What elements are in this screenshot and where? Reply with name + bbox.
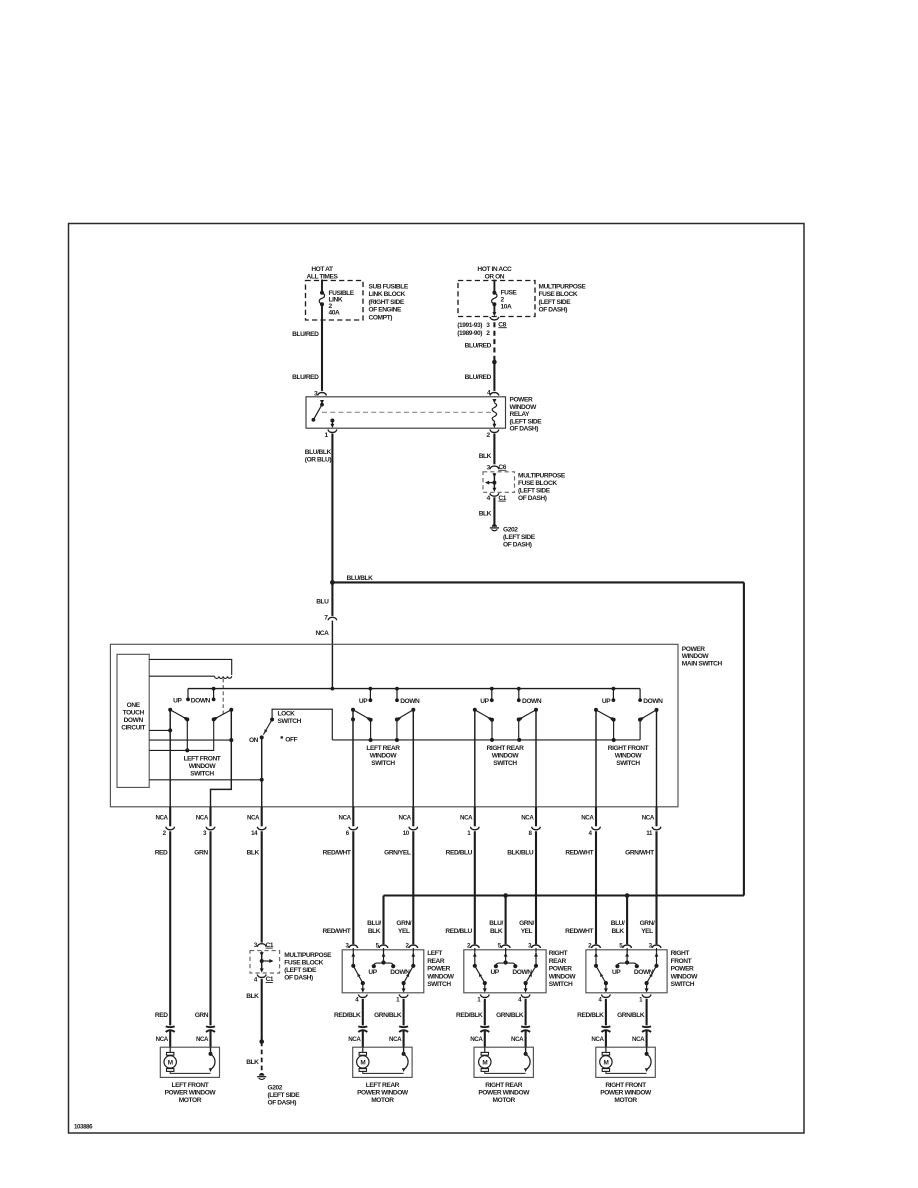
svg-text:POWER: POWER <box>682 646 705 653</box>
svg-text:GRN: GRN <box>195 1012 209 1019</box>
svg-text:BLU/: BLU/ <box>611 920 625 927</box>
right front power window switch common contact <box>626 949 628 963</box>
svg-text:(1989-90): (1989-90) <box>457 330 482 337</box>
left rear power window switch box <box>342 950 424 993</box>
svg-text:LINK BLOCK: LINK BLOCK <box>369 291 406 298</box>
svg-text:CIRCUIT: CIRCUIT <box>121 725 145 732</box>
svg-text:BLU/RED: BLU/RED <box>292 374 319 381</box>
svg-text:RIGHT REAR: RIGHT REAR <box>487 745 524 752</box>
svg-text:NCA: NCA <box>642 814 655 821</box>
svg-text:(OR BLU): (OR BLU) <box>305 456 332 463</box>
svg-text:NCA: NCA <box>389 1036 402 1043</box>
svg-text:HOT IN ACC: HOT IN ACC <box>477 266 512 273</box>
svg-text:TOUCH: TOUCH <box>123 710 145 717</box>
svg-text:BLK/BLU: BLK/BLU <box>507 849 534 856</box>
svg-text:NCA: NCA <box>470 1036 483 1043</box>
svg-text:UP: UP <box>490 969 499 976</box>
svg-text:GRN/BLK: GRN/BLK <box>496 1012 524 1019</box>
svg-text:GRN/: GRN/ <box>519 920 534 927</box>
left rear switch DOWN stub <box>396 689 398 701</box>
svg-text:NCA: NCA <box>348 1036 361 1043</box>
svg-text:DOWN: DOWN <box>643 698 663 705</box>
svg-text:OFF: OFF <box>285 736 297 743</box>
wire BLU/RED to relay pin 4 <box>493 362 495 391</box>
right rear switch left arm <box>473 708 477 712</box>
left front power window motor brush contact <box>210 1047 212 1053</box>
wire BLK to junction <box>261 979 263 1042</box>
svg-text:UP: UP <box>480 698 489 705</box>
wire BLU/BLK drop right front <box>626 896 628 945</box>
svg-text:RED/BLU: RED/BLU <box>446 849 473 856</box>
svg-text:BLK: BLK <box>247 849 260 856</box>
left rear power window switch bottom pins <box>362 983 364 990</box>
right front power window switch bottom pins <box>605 983 607 990</box>
svg-text:HOT AT: HOT AT <box>311 266 333 273</box>
wire BLU/RED fusible link to relay pin 3 <box>321 320 323 391</box>
lock switch <box>270 718 274 722</box>
relay pin 1 connector <box>328 430 337 433</box>
right rear power window switch right arm <box>535 952 537 965</box>
svg-text:SWITCH: SWITCH <box>549 981 573 988</box>
left front power window motor inline connectors <box>166 1025 175 1028</box>
svg-text:40A: 40A <box>329 309 340 316</box>
svg-text:SWITCH: SWITCH <box>616 760 640 767</box>
svg-text:WINDOW: WINDOW <box>492 753 520 760</box>
wire BLU/BLK right vertical trunk <box>743 582 745 895</box>
svg-text:REAR: REAR <box>549 958 567 965</box>
relay pin 4 connector <box>490 393 499 396</box>
svg-text:SWITCH: SWITCH <box>278 718 302 725</box>
svg-text:(LEFT SIDE: (LEFT SIDE <box>518 487 551 494</box>
main switch pin 11 (GRN/WHT) <box>655 807 657 827</box>
svg-text:WINDOW: WINDOW <box>189 763 217 770</box>
svg-text:NCA: NCA <box>591 1036 604 1043</box>
svg-text:NCA: NCA <box>521 814 534 821</box>
wire into fuse <box>493 280 495 293</box>
svg-text:ONE: ONE <box>127 702 141 709</box>
svg-text:YEL: YEL <box>521 928 533 935</box>
wire BLU/BLK drop right rear <box>505 896 507 945</box>
left rear power window motor brush contact <box>403 1047 405 1053</box>
svg-text:DOWN: DOWN <box>634 969 654 976</box>
svg-text:BLU/: BLU/ <box>489 920 503 927</box>
junction right front BLU/BLK <box>625 893 630 898</box>
svg-text:POWER: POWER <box>671 966 694 973</box>
svg-text:POWER WINDOW: POWER WINDOW <box>357 1089 409 1096</box>
left rear power window switch right arm <box>412 952 414 965</box>
power window relay box <box>306 397 506 428</box>
svg-text:NCA: NCA <box>196 814 209 821</box>
main switch pin 1 (RED/BLU) <box>474 807 476 827</box>
relay pin 3 connector <box>318 393 327 396</box>
wire one-touch to coil left <box>149 675 214 677</box>
svg-text:LEFT FRONT: LEFT FRONT <box>184 755 221 762</box>
multipurpose fuse block (dashed) <box>458 281 535 317</box>
svg-text:NCA: NCA <box>315 630 329 637</box>
svg-text:(LEFT SIDE: (LEFT SIDE <box>268 1092 301 1099</box>
left front switch left arm <box>168 708 172 712</box>
svg-text:14: 14 <box>251 830 258 837</box>
svg-text:NCA: NCA <box>155 814 168 821</box>
svg-text:FUSE BLOCK: FUSE BLOCK <box>518 480 557 487</box>
svg-text:RED: RED <box>155 849 168 856</box>
svg-text:OF DASH): OF DASH) <box>268 1099 297 1106</box>
svg-text:NCA: NCA <box>247 814 260 821</box>
svg-text:M: M <box>360 1059 365 1066</box>
left rear power window motor motor symbol <box>362 1047 364 1052</box>
left front power window motor box <box>160 1047 219 1077</box>
svg-text:RELAY: RELAY <box>510 411 531 418</box>
svg-text:BLU/BLK: BLU/BLK <box>305 449 332 456</box>
svg-text:BLU/BLK: BLU/BLK <box>347 575 374 582</box>
right rear power window switch bottom pins <box>484 983 486 990</box>
left rear switch left arm <box>351 708 355 712</box>
fusible link 2 40A <box>320 291 324 295</box>
wire BLU/BLK horizontal trunk <box>332 581 744 583</box>
svg-text:(RIGHT SIDE: (RIGHT SIDE <box>369 299 405 306</box>
svg-text:OR ON: OR ON <box>485 274 505 281</box>
svg-text:GRN/YEL: GRN/YEL <box>384 849 411 856</box>
svg-text:DOWN: DOWN <box>522 698 542 705</box>
wire into fusible link <box>321 280 323 293</box>
right rear power window switch common contact <box>505 949 507 963</box>
left rear power window motor inline connectors <box>358 1025 367 1028</box>
svg-text:LOCK: LOCK <box>278 711 296 718</box>
svg-text:WINDOW: WINDOW <box>549 973 577 980</box>
one touch coil <box>215 676 232 678</box>
left front switch DOWN contact <box>213 689 215 700</box>
connector C1 <box>490 493 499 496</box>
svg-text:WINDOW: WINDOW <box>510 404 538 411</box>
svg-text:(LEFT SIDE: (LEFT SIDE <box>510 418 543 425</box>
svg-text:RIGHT FRONT: RIGHT FRONT <box>608 745 649 752</box>
connector C6 <box>490 466 499 469</box>
wire BLU/BLK distribution bus <box>384 894 744 896</box>
svg-text:POWER: POWER <box>427 966 450 973</box>
svg-text:RED/WHT: RED/WHT <box>323 849 351 856</box>
svg-text:UP: UP <box>368 969 377 976</box>
main switch pin 2 (RED) <box>169 807 171 827</box>
svg-text:POWER WINDOW: POWER WINDOW <box>165 1089 217 1096</box>
right rear switch DOWN stub <box>518 689 520 701</box>
svg-text:BLU/RED: BLU/RED <box>465 343 492 350</box>
right front power window motor brush contact <box>646 1047 648 1053</box>
svg-text:(LEFT SIDE: (LEFT SIDE <box>503 534 536 541</box>
svg-text:M: M <box>482 1059 487 1066</box>
connector C1 upper <box>257 944 266 947</box>
svg-text:10A: 10A <box>501 304 512 311</box>
left rear power window motor box <box>353 1047 412 1077</box>
wire BLU/BLK drop left rear <box>382 896 384 945</box>
ground G202 upper <box>492 524 497 527</box>
left front power window motor motor symbol <box>169 1047 171 1052</box>
main switch pin 7 connector <box>328 617 337 620</box>
right rear switch right arm <box>534 708 538 712</box>
svg-text:SWITCH: SWITCH <box>190 770 214 777</box>
wire BLK dashed to ground <box>261 1042 263 1075</box>
svg-text:M: M <box>603 1059 608 1066</box>
svg-text:M: M <box>168 1059 173 1066</box>
svg-text:GRN: GRN <box>194 849 208 856</box>
svg-text:NCA: NCA <box>581 814 594 821</box>
svg-text:FUSE BLOCK: FUSE BLOCK <box>539 291 578 298</box>
junction BLK <box>259 1039 264 1044</box>
svg-text:REAR: REAR <box>427 958 445 965</box>
fuse 2 10A <box>492 291 496 295</box>
svg-text:G202: G202 <box>503 527 518 534</box>
junction on BLU/RED <box>492 360 497 365</box>
svg-text:UP: UP <box>173 697 182 704</box>
svg-text:YEL: YEL <box>398 928 410 935</box>
svg-text:MULTIPURPOSE: MULTIPURPOSE <box>284 952 332 959</box>
connector C1 lower <box>257 975 266 978</box>
svg-text:POWER: POWER <box>510 397 533 404</box>
svg-text:SWITCH: SWITCH <box>493 760 517 767</box>
contact bus in main switch <box>332 739 640 741</box>
main switch pin 8 (BLK/BLU) <box>535 807 537 827</box>
svg-text:OF DASH): OF DASH) <box>518 495 547 502</box>
svg-text:BLK: BLK <box>246 1059 259 1066</box>
svg-text:GRN/: GRN/ <box>640 920 655 927</box>
wire lock ON to pin 14 <box>261 737 263 806</box>
svg-text:COMPT): COMPT) <box>369 315 393 322</box>
wire one-touch 4 <box>149 779 262 781</box>
right front power window motor box <box>596 1047 656 1077</box>
power window main switch box <box>110 644 678 807</box>
svg-text:ON: ON <box>249 737 259 744</box>
svg-text:POWER WINDOW: POWER WINDOW <box>478 1089 530 1096</box>
svg-text:BLU/: BLU/ <box>367 920 381 927</box>
svg-text:WINDOW: WINDOW <box>682 653 710 660</box>
svg-text:NCA: NCA <box>460 814 473 821</box>
relay pin 1 branch <box>330 419 334 423</box>
wire BLU/RED dashed to junction <box>493 322 495 360</box>
svg-text:10: 10 <box>403 830 410 837</box>
relay internal dashed link <box>322 411 494 413</box>
right front power window motor motor symbol <box>605 1047 607 1052</box>
svg-text:LEFT FRONT: LEFT FRONT <box>171 1082 208 1089</box>
svg-text:ALL TIMES: ALL TIMES <box>307 274 339 281</box>
svg-text:BLK: BLK <box>368 928 381 935</box>
svg-text:RIGHT FRONT: RIGHT FRONT <box>605 1082 646 1089</box>
main switch pin 4 (RED/WHT) <box>595 807 597 827</box>
svg-text:DOWN: DOWN <box>191 697 211 704</box>
svg-text:RED/BLU: RED/BLU <box>445 928 472 935</box>
svg-text:G202: G202 <box>268 1084 283 1091</box>
svg-text:LEFT: LEFT <box>427 950 442 957</box>
wire one-touch 2 <box>149 739 231 741</box>
wire left contact down <box>186 719 188 750</box>
wire right pivot to pin 3 (jog) <box>211 710 232 807</box>
svg-text:MOTOR: MOTOR <box>371 1097 394 1104</box>
svg-text:OF DASH): OF DASH) <box>284 975 313 982</box>
junction BLU/BLK <box>330 580 335 585</box>
svg-text:POWER WINDOW: POWER WINDOW <box>600 1089 652 1096</box>
right front power window switch box <box>586 950 667 993</box>
svg-text:MOTOR: MOTOR <box>179 1097 202 1104</box>
right front power window motor inline connectors <box>601 1025 610 1028</box>
svg-text:DOWN: DOWN <box>390 969 410 976</box>
right front power window switch right arm <box>656 952 658 965</box>
main switch pin 10 (GRN/YEL) <box>412 807 414 827</box>
svg-text:POWER: POWER <box>549 966 572 973</box>
wire BLK to ground <box>493 497 495 526</box>
svg-text:RED: RED <box>155 1012 168 1019</box>
right rear switch UP stub <box>491 689 493 701</box>
svg-text:SWITCH: SWITCH <box>427 981 451 988</box>
svg-text:(LEFT SIDE: (LEFT SIDE <box>284 967 317 974</box>
svg-text:RED/WHT: RED/WHT <box>565 849 593 856</box>
svg-text:WINDOW: WINDOW <box>615 753 643 760</box>
svg-text:NCA: NCA <box>632 1036 645 1043</box>
svg-text:BLU/RED: BLU/RED <box>292 331 319 338</box>
wire one-touch 1 <box>149 729 170 731</box>
svg-text:BLU/RED: BLU/RED <box>465 374 492 381</box>
power bus in main switch <box>188 688 640 690</box>
svg-text:OF DASH): OF DASH) <box>539 307 568 314</box>
left rear power window switch common contact <box>383 949 385 963</box>
svg-text:BLK: BLK <box>246 993 259 1000</box>
svg-text:NCA: NCA <box>339 814 352 821</box>
ground G202 lower <box>259 1073 264 1076</box>
svg-text:OF DASH): OF DASH) <box>510 426 539 433</box>
svg-text:BLK: BLK <box>490 928 503 935</box>
svg-text:103886: 103886 <box>74 1124 93 1131</box>
diagram border frame <box>69 224 805 1134</box>
svg-text:11: 11 <box>646 830 653 837</box>
right rear power window motor inline connectors <box>480 1025 489 1028</box>
left front switch right arm <box>229 708 233 712</box>
relay pin 2 connector <box>490 430 499 433</box>
svg-text:LEFT REAR: LEFT REAR <box>366 745 400 752</box>
svg-text:NCA: NCA <box>196 1036 209 1043</box>
svg-text:LEFT REAR: LEFT REAR <box>366 1082 400 1089</box>
svg-text:MAIN SWITCH: MAIN SWITCH <box>682 660 723 667</box>
dashed actuator link <box>222 679 224 717</box>
main switch pin 3 (GRN) <box>209 807 211 827</box>
relay coil <box>492 399 496 403</box>
svg-text:RED/BLK: RED/BLK <box>577 1012 604 1019</box>
left front switch UP contact <box>187 689 189 700</box>
fuse block pass-through (dashed) lower <box>250 951 280 973</box>
right rear power window motor box <box>474 1047 533 1077</box>
svg-text:DOWN: DOWN <box>400 698 420 705</box>
right front power window switch left arm <box>595 952 597 965</box>
main switch pin 6 (RED/WHT) <box>352 807 354 827</box>
right rear power window switch top connectors <box>470 945 479 948</box>
svg-text:DOWN: DOWN <box>124 717 144 724</box>
left rear switch right arm <box>411 708 415 712</box>
svg-text:DOWN: DOWN <box>512 969 532 976</box>
right rear power window motor brush contact <box>525 1047 527 1053</box>
svg-text:WINDOW: WINDOW <box>671 973 699 980</box>
svg-text:BLK: BLK <box>611 928 624 935</box>
svg-text:OF ENGINE: OF ENGINE <box>369 307 403 314</box>
right rear power window switch left arm <box>474 952 476 965</box>
svg-text:FUSE BLOCK: FUSE BLOCK <box>284 960 323 967</box>
connector C8 <box>490 317 499 320</box>
right rear power window motor motor symbol <box>484 1047 486 1052</box>
svg-text:SUB FUSIBLE: SUB FUSIBLE <box>369 283 409 290</box>
svg-text:RIGHT: RIGHT <box>671 950 690 957</box>
right front window switch (main) <box>612 689 614 701</box>
svg-text:RIGHT REAR: RIGHT REAR <box>485 1082 522 1089</box>
relay switch contact <box>320 400 324 404</box>
svg-text:GRN/WHT: GRN/WHT <box>625 849 654 856</box>
right front power window switch top connectors <box>592 945 601 948</box>
multipurpose fuse block pass-through (dashed) <box>483 472 515 493</box>
right rear power window switch box <box>464 950 546 993</box>
svg-text:UP: UP <box>602 698 611 705</box>
wire one-touch 3 <box>149 719 214 750</box>
svg-text:MULTIPURPOSE: MULTIPURPOSE <box>518 472 566 479</box>
wire BLU to main switch pin 7 <box>331 582 333 616</box>
svg-text:NCA: NCA <box>511 1036 524 1043</box>
left rear switch UP stub <box>369 689 371 701</box>
svg-text:UP: UP <box>359 698 368 705</box>
svg-text:(LEFT SIDE: (LEFT SIDE <box>539 299 572 306</box>
wire left pivot to pin 2 <box>169 710 171 807</box>
svg-text:RED/BLK: RED/BLK <box>456 1012 483 1019</box>
svg-text:WINDOW: WINDOW <box>427 973 455 980</box>
svg-text:SWITCH: SWITCH <box>371 760 395 767</box>
left rear power window switch top connectors <box>349 945 358 948</box>
svg-text:RED/WHT: RED/WHT <box>322 928 350 935</box>
wire one-touch to coil right <box>149 659 232 675</box>
wire lock pivot to contact bus <box>272 709 332 740</box>
sub fusible link block (dashed) <box>306 281 364 321</box>
svg-text:MOTOR: MOTOR <box>614 1097 637 1104</box>
svg-text:RIGHT: RIGHT <box>549 950 568 957</box>
left rear power window switch left arm <box>352 952 354 965</box>
svg-text:WINDOW: WINDOW <box>370 753 398 760</box>
junction right rear BLU/BLK <box>503 893 508 898</box>
wire BLK relay to fuse block <box>493 434 495 465</box>
right rear switch pivot wires down <box>474 710 476 807</box>
svg-text:OF DASH): OF DASH) <box>503 542 532 549</box>
svg-text:NCA: NCA <box>156 1036 169 1043</box>
svg-text:GRN/: GRN/ <box>396 920 411 927</box>
svg-text:RED/BLK: RED/BLK <box>334 1012 361 1019</box>
left rear switch pivot wires down <box>352 710 354 807</box>
svg-text:GRN/BLK: GRN/BLK <box>374 1012 402 1019</box>
wire BLU/BLK relay pin 1 down <box>331 434 333 583</box>
svg-text:BLK: BLK <box>479 453 492 460</box>
svg-text:YEL: YEL <box>641 928 653 935</box>
main switch pin 14 (BLK) <box>261 807 263 827</box>
svg-text:MULTIPURPOSE: MULTIPURPOSE <box>539 283 587 290</box>
svg-text:BLK: BLK <box>479 511 492 518</box>
one touch down circuit box <box>117 654 149 787</box>
svg-text:RED/WHT: RED/WHT <box>565 928 593 935</box>
svg-text:SWITCH: SWITCH <box>671 981 695 988</box>
svg-text:FRONT: FRONT <box>671 958 692 965</box>
svg-text:(1991-93): (1991-93) <box>457 322 482 329</box>
svg-text:MOTOR: MOTOR <box>493 1097 516 1104</box>
svg-text:UP: UP <box>612 969 621 976</box>
svg-text:NCA: NCA <box>399 814 412 821</box>
svg-text:BLU: BLU <box>316 599 329 606</box>
svg-text:GRN/BLK: GRN/BLK <box>617 1012 645 1019</box>
